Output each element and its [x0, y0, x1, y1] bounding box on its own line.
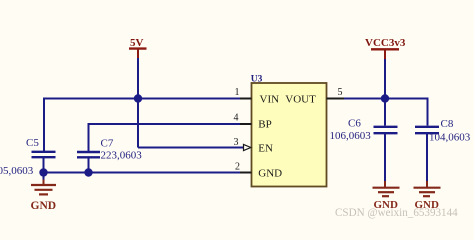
wire left vertical to C5 [43, 98, 45, 152]
pin 4 BP stub [240, 123, 252, 125]
wire EN drop vertical [137, 99, 139, 148]
pin 2 GND stub [240, 172, 252, 174]
wire GND bottom horizontal [44, 172, 242, 174]
capacitor C5 [0, 137, 56, 177]
svg-text:C8: C8 [441, 118, 454, 130]
pin 1 VIN stub [240, 98, 252, 100]
svg-text:2: 2 [235, 162, 240, 173]
wire BP horizontal [89, 123, 242, 125]
svg-text:1: 1 [235, 87, 240, 98]
wire VIN rail horizontal [43, 98, 241, 100]
ground symbol GND1 (left) [31, 173, 57, 213]
wire C7 top vertical [88, 123, 90, 151]
node junction 5V/VIN [134, 94, 142, 102]
pin 3 EN input arrow [244, 144, 251, 150]
svg-text:5V: 5V [130, 37, 144, 49]
svg-text:GND: GND [258, 167, 282, 179]
svg-text:VCC3v3: VCC3v3 [365, 37, 406, 49]
svg-text:05,0603: 05,0603 [0, 165, 34, 177]
svg-text:223,0603: 223,0603 [101, 150, 143, 162]
capacitor C6 [330, 118, 398, 142]
svg-text:EN: EN [258, 142, 273, 154]
power port 5V [129, 37, 147, 59]
node junction VOUT/VCC [381, 94, 389, 102]
power port VCC3v3 [365, 37, 406, 60]
svg-text:VOUT: VOUT [285, 93, 316, 105]
wire C5 bottom stem [43, 158, 45, 173]
svg-text:U3: U3 [251, 75, 263, 85]
svg-text:C5: C5 [26, 137, 39, 149]
wire 5V stem [137, 58, 139, 99]
capacitor C8 [415, 118, 471, 144]
svg-text:104,0603: 104,0603 [429, 132, 471, 144]
ground symbol GND3 (under C8) [414, 181, 441, 211]
ground symbol GND2 (under C6) [373, 181, 400, 211]
capacitor C7 [77, 138, 142, 162]
svg-text:CSDN @weixin_65393144: CSDN @weixin_65393144 [335, 207, 458, 219]
wire C6 bottom stem [384, 134, 386, 182]
pin 5 VOUT stub [327, 98, 346, 100]
svg-text:3: 3 [234, 137, 239, 148]
wire C8 corner drop [427, 99, 428, 126]
wire EN horizontal [138, 147, 244, 149]
svg-text:GND: GND [31, 200, 57, 212]
svg-text:106,0603: 106,0603 [330, 130, 372, 142]
wire C8 bottom stem [426, 134, 428, 182]
svg-text:5: 5 [338, 87, 343, 98]
svg-text:4: 4 [234, 113, 239, 124]
node junction C7/GND [84, 168, 92, 176]
svg-text:C6: C6 [348, 118, 361, 130]
node junction C5/GND [39, 168, 47, 176]
wire C6 top stem [384, 99, 386, 126]
svg-text:C7: C7 [101, 138, 114, 150]
svg-text:BP: BP [258, 118, 271, 130]
wire VOUT horizontal [344, 98, 428, 100]
IC U3 body [251, 75, 327, 187]
wire VCC3v3 stem [384, 59, 386, 99]
wire C7 bottom stem [88, 158, 90, 173]
svg-text:VIN: VIN [260, 93, 280, 105]
